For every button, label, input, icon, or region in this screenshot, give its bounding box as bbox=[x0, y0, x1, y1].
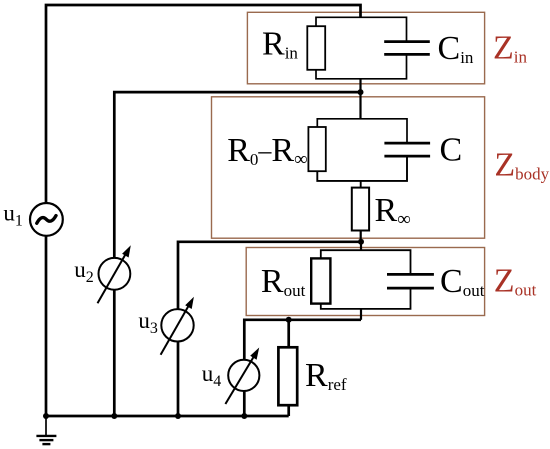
meter u4 bbox=[225, 348, 259, 405]
source u1 bbox=[30, 203, 63, 236]
wire u3 branch bbox=[178, 242, 361, 416]
svg-text:C: C bbox=[440, 132, 463, 169]
capacitor C_out bbox=[387, 274, 434, 288]
wire R_ref branch bbox=[287, 320, 290, 348]
wire Rinf bottom bbox=[360, 231, 362, 243]
node ground-u1 bbox=[43, 413, 49, 419]
box Z_out bbox=[246, 248, 484, 316]
meter u3 bbox=[161, 297, 194, 355]
ground bbox=[36, 416, 56, 444]
resistor R_in bbox=[307, 26, 325, 70]
resistor R_out bbox=[311, 258, 330, 303]
wire Zout bottom bbox=[360, 309, 362, 320]
wire Zbody loop bbox=[317, 119, 407, 142]
node Zout-Rref junction bbox=[286, 317, 292, 323]
wire Rinf top bbox=[360, 181, 362, 188]
node Zin-Zbody junction bbox=[358, 89, 364, 95]
resistor R_ref bbox=[278, 347, 297, 405]
wire R_ref bottom bbox=[287, 405, 290, 416]
wire Zin vertical bbox=[359, 79, 361, 119]
capacitor C bbox=[384, 143, 430, 156]
wire u4 branch bbox=[244, 320, 361, 416]
box Z_in bbox=[247, 12, 484, 84]
wire top main bbox=[46, 5, 361, 417]
wire u2 branch bbox=[114, 92, 360, 416]
box Z_body bbox=[212, 97, 485, 238]
wire Zout vertical bbox=[360, 242, 362, 251]
node u4-bottom bbox=[241, 413, 247, 419]
node u2-bottom bbox=[111, 413, 117, 419]
capacitor C_in bbox=[384, 42, 430, 55]
meter u2 bbox=[98, 245, 131, 303]
wire Zbody loop bottom bbox=[317, 156, 407, 181]
wire Zout loop bottom bbox=[321, 287, 411, 309]
resistor R_inf bbox=[352, 188, 369, 231]
wire Zout loop bbox=[321, 250, 411, 273]
node Zbody-Zout junction bbox=[358, 239, 364, 245]
wire Zin loop bbox=[316, 17, 407, 41]
resistor R_0-R_inf bbox=[308, 127, 325, 171]
wire Zin loop bottom bbox=[316, 55, 407, 79]
node u3-bottom bbox=[175, 413, 181, 419]
wire bottom main bbox=[46, 415, 289, 418]
